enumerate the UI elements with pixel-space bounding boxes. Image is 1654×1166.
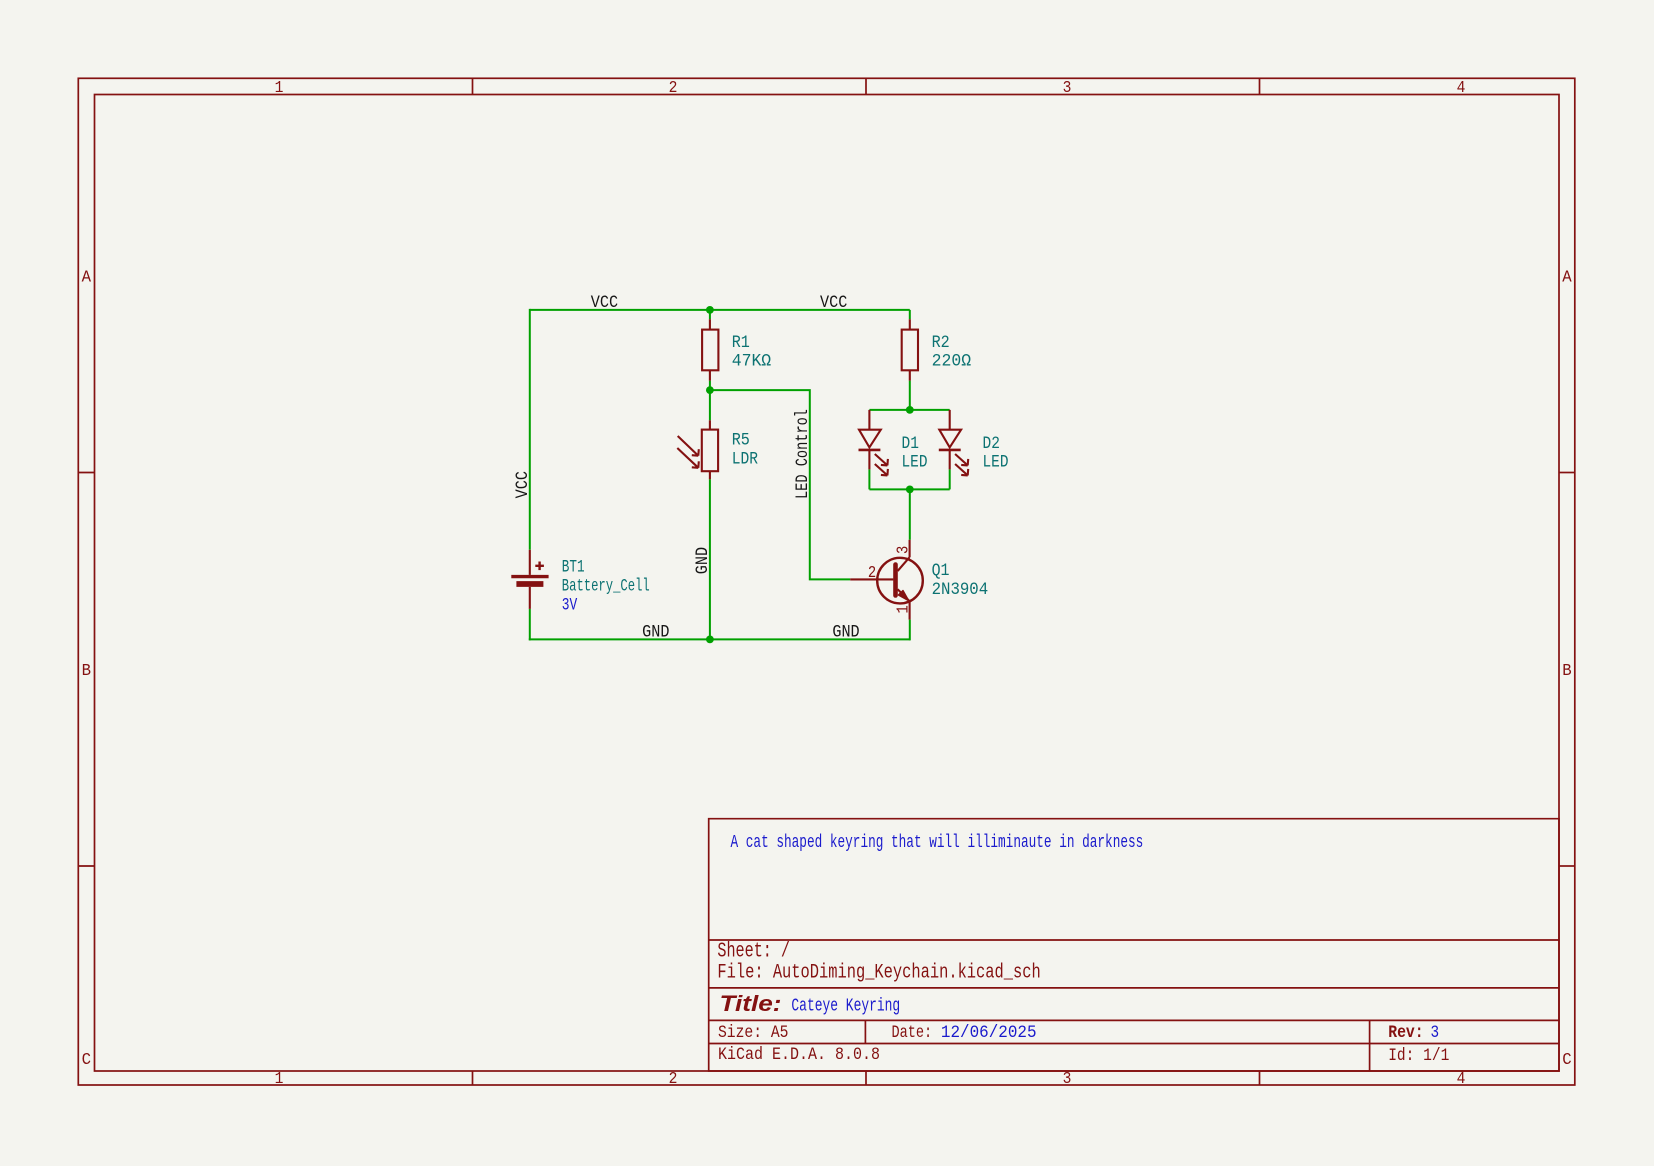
svg-text:A: A: [82, 267, 92, 287]
photoresistor R5: [677, 420, 718, 479]
wire LED rail to Q1 collector: [909, 489, 911, 539]
svg-text:KiCad E.D.A. 8.0.8: KiCad E.D.A. 8.0.8: [718, 1045, 880, 1064]
svg-text:1: 1: [275, 1069, 284, 1088]
junction node 5: [906, 486, 914, 494]
wire LED Control net: [710, 390, 850, 579]
wire R2 bottom to LED rail: [909, 381, 911, 410]
svg-text:220Ω: 220Ω: [932, 352, 971, 371]
svg-text:B: B: [1562, 661, 1572, 681]
wire VCC top rail: [530, 309, 910, 311]
file field: [717, 962, 1040, 985]
pin 2 (base): [868, 563, 876, 583]
svg-text:3: 3: [893, 546, 913, 554]
drawing sheet frame (outer border): [78, 78, 1575, 1085]
label R1: [732, 332, 750, 352]
title block outline: [709, 819, 1559, 1071]
title block row lines: [709, 940, 1559, 1044]
wire R5 top stub: [709, 390, 711, 420]
svg-text:LED Control: LED Control: [792, 409, 812, 499]
label R5: [732, 430, 750, 450]
svg-text:R1: R1: [732, 332, 750, 352]
svg-text:VCC: VCC: [820, 292, 847, 312]
svg-text:1: 1: [275, 78, 284, 97]
wire D1 cathode stub: [868, 469, 870, 489]
svg-text:47KΩ: 47KΩ: [732, 352, 771, 371]
label BT1: [562, 556, 585, 577]
net label LED Control (vertical): [792, 409, 812, 499]
rev field: [1388, 1023, 1423, 1042]
value LED (D1): [902, 452, 928, 472]
drawing sheet frame (inner border): [95, 95, 1560, 1072]
svg-text:2: 2: [669, 1069, 678, 1088]
title value: [791, 995, 900, 1016]
kicad version text: [718, 1045, 880, 1064]
wire LED cathode rail: [869, 488, 949, 490]
transistor Q1 body: [850, 540, 923, 620]
LED D2: [939, 410, 968, 476]
svg-text:LED: LED: [902, 452, 928, 472]
svg-text:Id: 1/1: Id: 1/1: [1388, 1046, 1449, 1065]
svg-text:VCC: VCC: [512, 471, 532, 498]
net label VCC (top right): [820, 292, 847, 312]
svg-text:LED: LED: [983, 452, 1009, 472]
net label GND (bottom left): [642, 622, 669, 642]
svg-text:Battery_Cell: Battery_Cell: [562, 578, 650, 596]
junction node 1: [706, 306, 714, 314]
svg-text:Size: A5: Size: A5: [718, 1023, 788, 1042]
svg-text:4: 4: [1457, 78, 1466, 97]
value LED (D2): [983, 452, 1009, 472]
date value: [941, 1023, 1037, 1043]
resistor R1: [702, 319, 718, 380]
wire GND bottom rail: [529, 638, 910, 640]
junction node 2: [706, 386, 714, 394]
wire VCC left drop: [529, 309, 531, 550]
date field: [892, 1023, 933, 1043]
label Q1: [932, 561, 950, 580]
svg-text:GND: GND: [832, 622, 859, 642]
svg-text:Date:: Date:: [892, 1023, 933, 1043]
svg-text:Sheet: /: Sheet: /: [717, 941, 790, 964]
value 47KΩ: [732, 352, 771, 371]
svg-text:3: 3: [1431, 1023, 1440, 1043]
junction node 4: [906, 406, 914, 414]
svg-text:1: 1: [893, 605, 913, 613]
svg-text:3V: 3V: [562, 595, 578, 615]
value Battery_Cell: [562, 578, 650, 596]
LED D1: [859, 410, 888, 476]
svg-text:A cat shaped keyring that will: A cat shaped keyring that will illiminau…: [731, 832, 1144, 853]
wire R2 top stub: [909, 310, 911, 319]
svg-text:File: AutoDiming_Keychain.kica: File: AutoDiming_Keychain.kicad_sch: [717, 962, 1040, 985]
svg-text:R5: R5: [732, 430, 750, 450]
title label: [720, 992, 782, 1017]
svg-text:2: 2: [868, 563, 876, 583]
svg-text:Rev:: Rev:: [1388, 1023, 1423, 1042]
junction node 3: [706, 636, 714, 644]
wire D2 cathode stub: [949, 469, 951, 489]
label D1: [902, 434, 919, 454]
net label GND (bottom right): [832, 622, 859, 642]
sheet field: [717, 941, 790, 964]
value 3V: [562, 595, 578, 615]
resistor R2: [902, 319, 918, 380]
svg-text:GND: GND: [642, 622, 669, 642]
svg-text:12/06/2025: 12/06/2025: [941, 1023, 1037, 1043]
wire LED anode rail: [869, 409, 949, 411]
svg-text:LDR: LDR: [732, 449, 759, 468]
battery BT1: [511, 550, 548, 609]
svg-text:A: A: [1562, 267, 1572, 287]
id field: [1388, 1046, 1449, 1065]
label D2: [983, 434, 1000, 454]
svg-text:R2: R2: [932, 332, 950, 352]
label R2: [932, 332, 950, 352]
svg-text:GND: GND: [692, 547, 712, 574]
frame zone divider ticks: [78, 78, 1575, 1085]
rev value: [1431, 1023, 1440, 1043]
net label GND (middle, vertical): [692, 547, 712, 574]
title block column lines: [865, 1020, 1369, 1071]
frame zone labels 1-4 / A-C: [82, 78, 1572, 1088]
svg-text:BT1: BT1: [562, 556, 585, 577]
svg-text:Title:: Title:: [720, 992, 782, 1017]
svg-text:D1: D1: [902, 434, 919, 454]
svg-text:2: 2: [669, 78, 678, 97]
svg-text:C: C: [1562, 1049, 1572, 1069]
value LDR: [732, 449, 759, 468]
wire Q1 emitter to GND rail: [909, 620, 911, 641]
net label VCC (left, vertical): [512, 471, 532, 498]
wire R1 bottom stub: [709, 381, 711, 391]
svg-text:D2: D2: [983, 434, 1000, 454]
svg-text:VCC: VCC: [591, 292, 618, 312]
wire R1 top stub: [709, 310, 711, 319]
value 2N3904: [932, 580, 989, 600]
net label VCC (top left): [591, 292, 618, 312]
svg-text:Q1: Q1: [932, 561, 950, 580]
svg-text:Cateye Keyring: Cateye Keyring: [791, 995, 900, 1016]
svg-text:C: C: [82, 1049, 92, 1069]
svg-text:2N3904: 2N3904: [932, 580, 989, 600]
wire R5 bottom to GND rail: [709, 479, 711, 639]
size field: [718, 1023, 788, 1042]
wire battery negative to GND rail: [529, 609, 531, 641]
pin 3 (collector): [893, 546, 913, 554]
value 220Ω: [932, 352, 971, 371]
svg-text:3: 3: [1063, 78, 1072, 97]
svg-text:B: B: [82, 661, 92, 681]
comment text: [731, 832, 1144, 853]
pin 1 (emitter): [893, 605, 913, 613]
